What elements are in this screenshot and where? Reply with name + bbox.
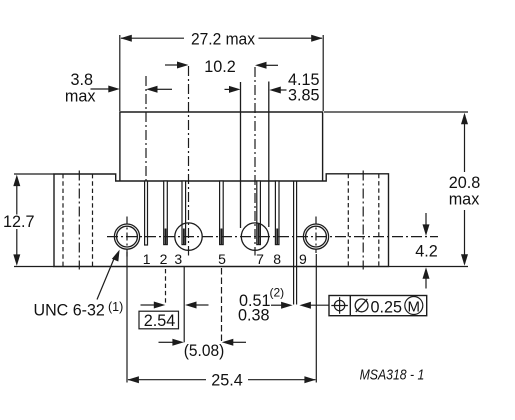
pin 1 [145, 181, 148, 245]
pin 8 [275, 181, 279, 245]
svg-text:27.2 max: 27.2 max [191, 30, 255, 48]
hole 1 vertical centre line [126, 217, 128, 258]
svg-text:3: 3 [174, 251, 182, 267]
pin 2 extension line [165, 269, 167, 305]
svg-text:25.4: 25.4 [211, 372, 243, 390]
pin 5 extension line [221, 268, 223, 342]
dimension 0.51 / 0.38 [238, 286, 329, 325]
svg-text:3.8: 3.8 [70, 71, 93, 89]
hole 4 (threaded) [303, 224, 328, 249]
svg-text:20.8: 20.8 [449, 174, 481, 192]
svg-text:UNC 6-32: UNC 6-32 [34, 301, 105, 320]
pin 9 [294, 181, 297, 305]
right flange center line [362, 171, 364, 270]
dimension 10.2 [165, 58, 278, 76]
svg-text:MSA318 - 1: MSA318 - 1 [360, 368, 425, 384]
hole 2 [175, 223, 202, 250]
svg-text:max: max [65, 87, 96, 105]
svg-text:10.2: 10.2 [204, 58, 236, 76]
svg-text:M: M [408, 298, 421, 315]
reference line right of hole 3 [268, 82, 270, 228]
svg-text:12.7: 12.7 [3, 213, 35, 231]
dimension 4.15 / 3.85 [225, 71, 320, 105]
left flange center line [78, 171, 80, 270]
right flange hidden line b [378, 174, 380, 267]
svg-text:4.2: 4.2 [415, 243, 438, 261]
hole 2 centre line vertical [188, 66, 190, 256]
hole 1 (threaded) [114, 224, 139, 249]
dimension 20.8 max [324, 112, 480, 267]
svg-text:(2): (2) [270, 286, 285, 300]
svg-text:(1): (1) [108, 300, 123, 314]
pin 1 centre line [145, 76, 147, 181]
svg-text:2.54: 2.54 [144, 312, 176, 330]
pin 2 [164, 181, 168, 245]
left flange hidden line a [62, 174, 64, 267]
dimension 3.8 max [65, 71, 172, 106]
svg-text:8: 8 [273, 251, 281, 267]
pin 7 [257, 181, 261, 245]
svg-text:0.25: 0.25 [371, 298, 403, 316]
flange outline [54, 174, 389, 267]
svg-text:2: 2 [160, 251, 168, 267]
dimension 2.54 [139, 302, 209, 331]
dimension (5.08) [159, 339, 247, 360]
tolerance feature frame [329, 296, 427, 317]
hole 3 centre line vertical [254, 67, 256, 256]
dimension 27.2 max [120, 30, 323, 111]
left flange hidden line b [92, 174, 94, 267]
pin 5 [220, 181, 224, 245]
right flange hidden line a [347, 174, 349, 267]
hole 4 vertical centre line [315, 217, 317, 254]
svg-text:7: 7 [256, 251, 264, 267]
holes horizontal centre line [107, 236, 438, 238]
pin 3 [182, 181, 186, 245]
pin 3 extension line [183, 267, 185, 342]
svg-text:9: 9 [299, 251, 307, 267]
svg-text:1: 1 [143, 251, 151, 267]
svg-text:max: max [449, 190, 480, 208]
svg-text:(5.08): (5.08) [184, 342, 225, 360]
lead 6 reference line [240, 82, 242, 228]
svg-text:0.38: 0.38 [238, 307, 270, 325]
UNC 6-32 note with leader [34, 248, 124, 319]
svg-text:5: 5 [218, 251, 226, 267]
svg-text:3.85: 3.85 [288, 87, 320, 105]
dimension 25.4 [127, 252, 316, 390]
dimension 4.2 [415, 213, 438, 289]
hole 3 [241, 223, 268, 250]
dimension 12.7 [3, 174, 54, 267]
body outline [120, 112, 323, 181]
